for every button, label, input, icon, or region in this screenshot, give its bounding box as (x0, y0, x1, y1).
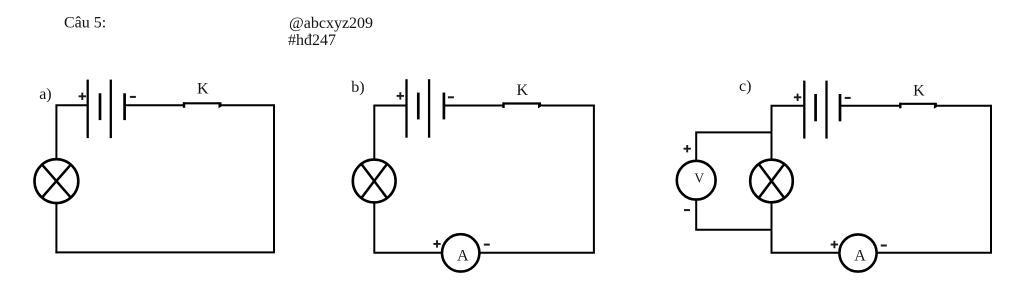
wire: a switch right to top-right corner (222, 104, 274, 106)
wire: c lamp bottom to bottom corner to ammeter left (772, 203, 840, 253)
battery b minus label (448, 96, 454, 98)
wire: a top-left from battery + to corner and down to lamp (56, 105, 87, 159)
ammeter minus label (b) (484, 244, 490, 246)
wire: b right side (593, 105, 595, 253)
svg-text:K: K (517, 82, 529, 99)
battery c minus label (845, 97, 851, 99)
ammeter A (b) (442, 234, 479, 271)
svg-text:#hđ247: #hđ247 (288, 32, 336, 49)
wire: c battery - to switch left post (840, 105, 900, 107)
wire: a right side (273, 104, 275, 252)
wire: c voltmeter branch top (696, 132, 772, 161)
wire: a battery - to switch left post (125, 104, 184, 106)
lamp (c) (750, 160, 793, 203)
ammeter A (c) (839, 234, 876, 271)
battery a (88, 80, 125, 139)
ammeter plus label (b) (433, 240, 440, 247)
wire: c voltmeter branch bottom (696, 200, 772, 230)
wire: b switch right to top-right corner (542, 105, 594, 107)
voltmeter V (677, 161, 716, 200)
wire: b top-left from battery + to corner and down to lamp (374, 106, 406, 160)
svg-text:Câu 5:: Câu 5: (64, 15, 106, 32)
svg-text:K: K (913, 83, 925, 100)
wire: c right side (990, 105, 992, 253)
svg-text:b): b) (351, 79, 364, 96)
battery b (407, 79, 444, 138)
battery c (804, 81, 840, 139)
battery c plus label (794, 94, 801, 101)
voltmeter minus label (684, 209, 690, 211)
svg-text:V: V (694, 170, 704, 185)
lamp (b) (353, 160, 396, 203)
wire: c top-left from battery + to corner and down to lamp (772, 106, 805, 160)
wire: a lamp bottom to bottom-left corner (55, 203, 57, 254)
wire: b ammeter right to bottom-right corner (479, 252, 595, 254)
switch K (a) (183, 102, 223, 108)
wire: b bottom-left corner to ammeter left (374, 203, 442, 253)
lamp (a) (35, 159, 79, 203)
wire: a bottom side (55, 251, 275, 253)
voltmeter plus label (684, 145, 691, 152)
wire: b battery - to switch left post (444, 105, 504, 107)
battery a plus label (79, 93, 86, 100)
ammeter minus label (c) (881, 245, 887, 247)
svg-text:A: A (854, 247, 866, 264)
svg-text:K: K (197, 81, 209, 98)
svg-text:c): c) (739, 78, 751, 95)
svg-text:A: A (457, 247, 469, 264)
svg-text:@abcxyz209: @abcxyz209 (289, 15, 373, 32)
wire: c ammeter right to bottom-right corner (877, 252, 993, 254)
switch K (c) (900, 103, 940, 109)
switch K (b) (503, 102, 543, 108)
battery a minus label (130, 96, 136, 98)
wire: c switch right to top-right corner (938, 105, 991, 107)
ammeter plus label (c) (831, 241, 838, 248)
svg-text:a): a) (39, 86, 51, 103)
battery b plus label (397, 92, 404, 99)
